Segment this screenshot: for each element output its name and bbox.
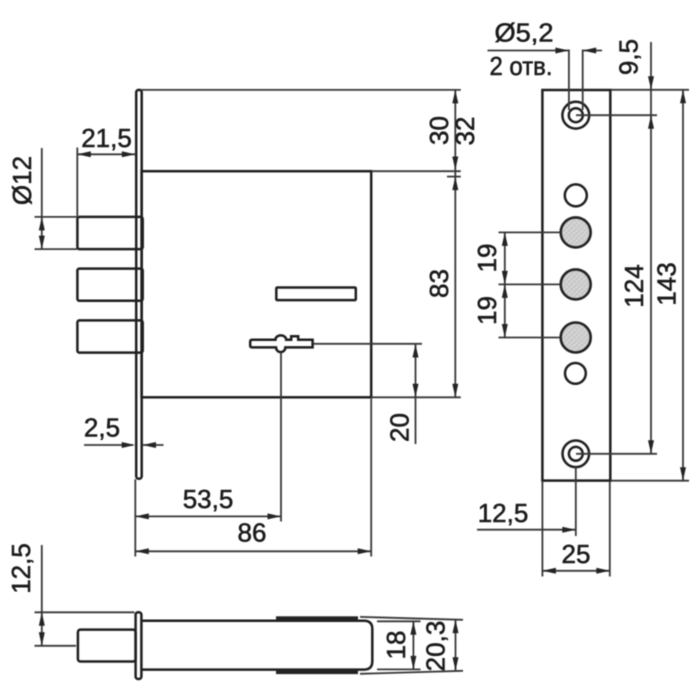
- arrow O5,2 right: [583, 48, 597, 54]
- svg-text:18: 18: [381, 631, 411, 660]
- svg-text:83: 83: [424, 269, 454, 298]
- ext bolt hole 1 left: [499, 231, 561, 233]
- arrow 19a bottom: [502, 271, 508, 285]
- svg-text:19: 19: [472, 296, 502, 325]
- ext keyhole center down: [280, 353, 282, 522]
- dim 18 ext bottom: [377, 668, 421, 670]
- dim line 53,5: [135, 515, 281, 517]
- dim O12 ext bottom: [35, 248, 78, 250]
- lock body outline: [142, 171, 372, 397]
- bottom view bottom cover: [276, 670, 358, 675]
- dim 2,5 left shaft: [84, 444, 133, 446]
- svg-text:53,5: 53,5: [183, 484, 234, 514]
- svg-text:86: 86: [238, 518, 267, 548]
- arrow 12,5: [562, 527, 576, 533]
- arrow 20,3 bottom: [453, 657, 459, 671]
- ext line 32 inner: [447, 176, 461, 178]
- dim O12 ext top: [35, 216, 78, 218]
- svg-text:2,5: 2,5: [84, 413, 120, 443]
- bolt hole 1: [561, 217, 591, 247]
- ext bolt hole 3 left: [499, 337, 561, 339]
- arrow 53,5 left: [135, 513, 149, 519]
- arrow 86 left: [135, 548, 149, 554]
- svg-text:20: 20: [384, 413, 414, 442]
- dim O5,2 ext lines: [568, 50, 570, 111]
- dim O5,2 right shaft: [583, 50, 602, 52]
- dim 20 ext from keyhole: [314, 343, 423, 345]
- dim 20,3 ext top: [360, 617, 463, 620]
- bottom view bolt: [78, 630, 136, 662]
- svg-text:25: 25: [562, 539, 591, 569]
- dim line 19/19: [504, 232, 506, 337]
- screw hole top inner: [569, 108, 583, 122]
- arrow 124 top: [648, 115, 654, 129]
- arrow 18 bottom: [410, 656, 416, 670]
- arrow 25 left: [542, 568, 556, 574]
- arrow O12 bottom: [39, 236, 45, 250]
- svg-text:124: 124: [619, 264, 649, 307]
- bolt hole 2: [561, 269, 591, 299]
- dim 2,5 right shaft: [143, 444, 164, 446]
- arrow 20,3 top: [453, 620, 459, 634]
- bolt 3: [77, 320, 142, 352]
- svg-text:20,3: 20,3: [420, 621, 450, 672]
- ext line body bottom to dim: [371, 396, 461, 398]
- faceplate strip side view: [136, 90, 142, 479]
- svg-text:32: 32: [450, 117, 480, 146]
- svg-text:Ø5,2: Ø5,2: [495, 18, 554, 48]
- bolt 2: [77, 269, 142, 301]
- bottom view top cover: [276, 616, 358, 621]
- dim line 12,5: [477, 529, 576, 531]
- arrow 25 right: [596, 568, 610, 574]
- svg-text:21,5: 21,5: [81, 123, 132, 153]
- arrow 30 top: [452, 90, 458, 104]
- keyhole profile: [250, 335, 312, 352]
- dim line 143: [682, 90, 684, 481]
- ext plate bottom right: [611, 480, 689, 482]
- arrow 124 bottom: [648, 440, 654, 454]
- dim line 9,5 / 124: [650, 42, 652, 454]
- arrow 143 bottom: [680, 467, 686, 481]
- arrow 21,5 left: [77, 151, 91, 157]
- screw hole top outer: [562, 102, 589, 129]
- arrow 21,5 right: [122, 151, 136, 157]
- dim 12,5 bottom ext top: [35, 611, 135, 613]
- arrow 32: [452, 177, 458, 191]
- dim line 86: [135, 550, 371, 552]
- faceplate front view: [542, 90, 610, 481]
- dim line 21,5: [77, 153, 135, 155]
- ext plate left down: [541, 481, 543, 577]
- dim line 12,5 bottom: [41, 545, 43, 646]
- arrow 12,5 bottom bottom: [39, 632, 45, 646]
- arrow 53,5 right: [268, 513, 282, 519]
- arrow O5,2 left: [555, 48, 569, 54]
- bottom view faceplate bar: [136, 612, 142, 679]
- ext bolt hole 2 left: [499, 283, 561, 285]
- handle slot: [276, 288, 356, 301]
- small hole bottom: [565, 363, 586, 384]
- ext body right down: [370, 399, 372, 557]
- dim line 25: [542, 570, 609, 572]
- ext screw2 center down: [575, 467, 577, 536]
- arrow 9,5 top: [648, 76, 654, 90]
- arrow 30 bottom: [452, 157, 458, 171]
- ext plate right down: [609, 481, 611, 577]
- dim line 20,3: [455, 620, 457, 671]
- ext screw1 center right: [576, 114, 657, 116]
- screw hole bottom outer: [563, 441, 590, 468]
- dim line 18: [412, 621, 414, 669]
- ext line body top to dim: [371, 170, 461, 172]
- arrow 19a top: [502, 232, 508, 246]
- ext strip left bottom: [134, 479, 136, 556]
- screw hole bottom inner: [569, 447, 583, 461]
- dim 21,5 ext left: [76, 148, 78, 217]
- small hole top: [565, 184, 587, 206]
- arrow 2,5 right: [143, 442, 157, 448]
- bottom view case: [143, 621, 373, 670]
- svg-text:9,5: 9,5: [613, 39, 643, 75]
- svg-text:2 отв.: 2 отв.: [490, 51, 553, 81]
- arrow 83 bottom: [452, 384, 458, 398]
- ext screw2 center right: [576, 453, 657, 455]
- ext line strip top to dim 30/32: [141, 89, 461, 91]
- dim line O12: [41, 148, 43, 249]
- arrow 20 top: [413, 344, 419, 358]
- svg-text:12,5: 12,5: [478, 498, 529, 528]
- svg-text:19: 19: [472, 244, 502, 273]
- svg-text:143: 143: [651, 262, 681, 305]
- svg-text:12,5: 12,5: [6, 543, 36, 594]
- bolt hole 3: [561, 323, 591, 353]
- dim 12,5 bottom ext center: [35, 645, 77, 647]
- arrow 19b top: [502, 284, 508, 298]
- arrow 143 top: [680, 90, 686, 104]
- arrow 19b bottom: [502, 324, 508, 338]
- arrow 12,5 bottom top: [39, 612, 45, 626]
- dim 18 ext top: [377, 620, 421, 622]
- svg-text:Ø12: Ø12: [7, 156, 37, 205]
- dim O5,2 line under text: [488, 50, 569, 52]
- dim 20,3 ext bottom: [360, 671, 463, 674]
- arrow O12 top: [39, 217, 45, 231]
- dim line 30/32/83 vertical: [454, 90, 456, 397]
- arrow 86 right: [358, 548, 372, 554]
- arrow 18 top: [410, 621, 416, 635]
- arrow 20 bottom: [413, 384, 419, 398]
- dim line 20: [415, 344, 417, 444]
- ext plate top right: [611, 89, 689, 91]
- arrow 2,5 left: [122, 442, 136, 448]
- bolt 1: [77, 217, 142, 249]
